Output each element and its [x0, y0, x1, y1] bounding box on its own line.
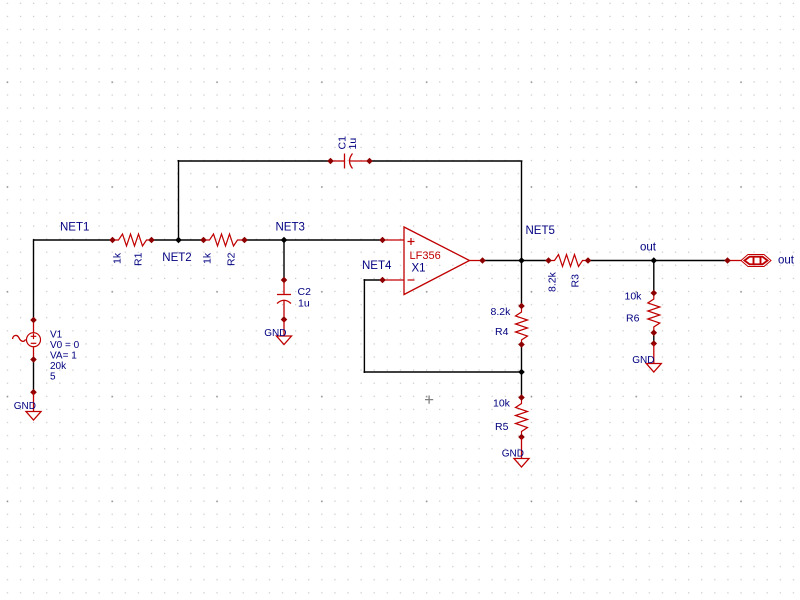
wire NET4 vertical — [363, 279, 365, 373]
wire NET1 vertical to V1 — [33, 239, 35, 320]
junction NET4 feedback — [518, 369, 525, 376]
svg-text:20k: 20k — [50, 361, 67, 372]
svg-text:1k: 1k — [112, 252, 124, 264]
svg-text:R1: R1 — [133, 252, 145, 266]
wire NET4 horizontal from minus input — [364, 279, 383, 281]
wire R3 to out port — [588, 260, 728, 262]
junction out node — [651, 257, 658, 264]
junction NET5 output — [518, 257, 525, 264]
svg-text:NET2: NET2 — [162, 252, 191, 264]
wire NET4 bottom to junction — [364, 371, 522, 373]
wire output vertical from C1 to R4 — [521, 161, 523, 306]
junction NET3 — [281, 237, 288, 244]
svg-text:C2: C2 — [298, 286, 312, 298]
svg-text:GND: GND — [264, 328, 286, 339]
wire NET2 up to C1 branch — [178, 160, 180, 240]
wire NET1 horizontal — [34, 239, 113, 241]
svg-text:10k: 10k — [493, 398, 511, 410]
ground for R6 — [632, 340, 661, 372]
svg-text:GND: GND — [14, 401, 36, 412]
svg-text:V1: V1 — [50, 330, 63, 341]
out port symbol — [724, 255, 795, 267]
resistor R3 — [545, 255, 591, 293]
capacitor C2 — [277, 277, 311, 323]
ground for V1 — [14, 389, 41, 420]
op-amp U X1 LF356 — [379, 227, 486, 295]
resistor R6 — [625, 290, 660, 336]
svg-text:R4: R4 — [495, 326, 509, 338]
wire op-amp output to R3 — [483, 260, 549, 262]
wire C1 left segment — [178, 160, 331, 162]
svg-text:NET3: NET3 — [276, 222, 305, 234]
svg-text:GND: GND — [502, 449, 524, 460]
ground for R5 — [502, 437, 529, 467]
svg-text:R5: R5 — [495, 421, 509, 433]
svg-text:1u: 1u — [298, 298, 310, 310]
svg-text:1u: 1u — [347, 138, 359, 150]
svg-text:R6: R6 — [626, 313, 640, 325]
capacitor C1 — [327, 136, 373, 169]
svg-text:NET4: NET4 — [362, 260, 392, 272]
wire R6 bottom to GND node — [653, 333, 655, 344]
resistor R5 — [493, 394, 528, 440]
wire R4 to R5 through feedback junction — [521, 345, 523, 398]
svg-text:NET1: NET1 — [60, 222, 89, 234]
wire R1 to R2 through NET2 — [152, 239, 204, 241]
resistor R1 — [109, 234, 155, 266]
svg-text:8.2k: 8.2k — [491, 306, 512, 318]
ground for C2 — [264, 320, 291, 345]
wire R2 to op-amp + input through NET3 — [245, 239, 383, 241]
svg-text:8.2k: 8.2k — [547, 271, 559, 292]
wire out junction down to R6 — [653, 261, 655, 294]
voltage source V1 — [13, 317, 80, 383]
origin marker cross — [425, 396, 433, 404]
wire C1 right segment — [370, 160, 523, 162]
wire V1 bottom to GND node — [33, 360, 35, 393]
resistor R2 — [200, 234, 248, 266]
svg-text:1k: 1k — [202, 252, 214, 264]
wire NET3 down to C2 — [283, 240, 285, 280]
svg-text:R2: R2 — [226, 252, 238, 266]
svg-text:NET5: NET5 — [526, 225, 555, 237]
svg-text:out: out — [778, 255, 795, 267]
junction NET2 — [175, 237, 182, 244]
svg-text:VA= 1: VA= 1 — [50, 350, 77, 361]
svg-text:X1: X1 — [412, 263, 426, 275]
svg-text:10k: 10k — [625, 291, 643, 303]
resistor R4 — [491, 303, 528, 348]
svg-text:out: out — [640, 242, 657, 254]
svg-text:LF356: LF356 — [410, 250, 441, 262]
svg-text:GND: GND — [632, 355, 654, 366]
svg-text:5: 5 — [50, 371, 56, 382]
svg-text:R3: R3 — [570, 274, 582, 288]
